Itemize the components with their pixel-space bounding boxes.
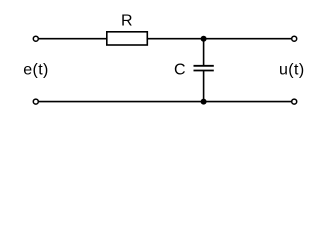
svg-text:e(t): e(t) xyxy=(23,62,49,79)
node e(t) input voltage label xyxy=(23,62,49,79)
wire bottom xyxy=(39,101,291,103)
terminal input bottom xyxy=(33,99,38,104)
terminal output top xyxy=(292,36,297,41)
node junction top xyxy=(201,36,207,42)
resistor R xyxy=(107,32,148,45)
node u(t) output voltage label xyxy=(279,62,305,79)
terminal output bottom xyxy=(292,99,297,104)
terminal input top xyxy=(33,36,38,41)
wire capacitor lower lead xyxy=(203,71,205,102)
svg-text:u(t): u(t) xyxy=(279,62,305,79)
wire top-right segment xyxy=(148,38,292,40)
svg-text:R: R xyxy=(121,13,133,30)
wire capacitor upper lead xyxy=(203,39,205,66)
wire top-left segment xyxy=(39,38,107,40)
capacitor C xyxy=(194,66,214,71)
label C xyxy=(174,61,186,78)
label R xyxy=(121,13,133,30)
node junction bottom xyxy=(201,99,207,105)
svg-text:C: C xyxy=(174,61,186,78)
